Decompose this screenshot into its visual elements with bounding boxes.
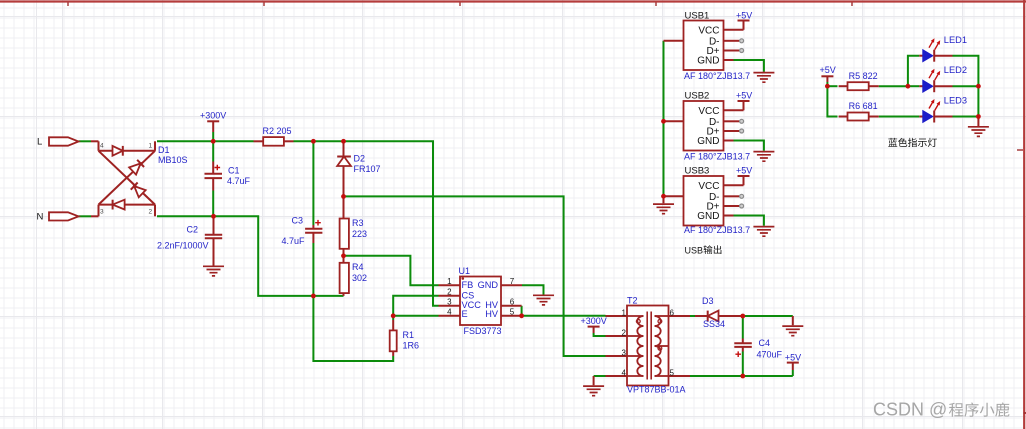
svg-text:D3: D3 — [702, 296, 714, 306]
svg-text:VCC: VCC — [698, 25, 719, 36]
svg-text:R1: R1 — [403, 330, 415, 340]
svg-text:+5V: +5V — [736, 91, 752, 101]
svg-text:+5V: +5V — [736, 10, 752, 20]
svg-text:USB2: USB2 — [685, 91, 710, 102]
svg-text:CSDN @: CSDN @ — [873, 400, 947, 420]
svg-text:C1: C1 — [228, 166, 240, 176]
svg-text:470uF: 470uF — [757, 349, 783, 359]
svg-text:VPT87BB-01A: VPT87BB-01A — [627, 385, 686, 395]
svg-text:1: 1 — [149, 143, 153, 150]
svg-text:LED3: LED3 — [944, 96, 967, 106]
svg-text:AF 180°ZJB13.7: AF 180°ZJB13.7 — [684, 225, 750, 235]
svg-text:L: L — [37, 137, 42, 148]
svg-text:USB1: USB1 — [685, 10, 710, 21]
svg-text:D1: D1 — [158, 145, 170, 155]
svg-text:R5 822: R5 822 — [849, 71, 878, 81]
svg-text:VCC: VCC — [698, 181, 719, 192]
svg-text:3: 3 — [622, 349, 627, 358]
svg-text:+5V: +5V — [736, 166, 752, 176]
svg-text:R2 205: R2 205 — [263, 126, 292, 136]
svg-text:FB: FB — [462, 280, 474, 290]
svg-text:+300V: +300V — [200, 111, 226, 121]
svg-text:E: E — [462, 309, 468, 319]
svg-text:2.2nF/1000V: 2.2nF/1000V — [157, 240, 209, 250]
svg-text:C3: C3 — [292, 215, 304, 225]
svg-text:C4: C4 — [759, 338, 771, 348]
svg-text:R6 681: R6 681 — [849, 101, 878, 111]
svg-text:LED1: LED1 — [944, 35, 967, 45]
svg-text:3: 3 — [100, 209, 104, 216]
svg-text:R3: R3 — [352, 218, 364, 228]
svg-text:7: 7 — [510, 277, 515, 286]
svg-text:6: 6 — [510, 297, 515, 306]
svg-text:LED2: LED2 — [944, 65, 967, 75]
svg-text:302: 302 — [352, 273, 367, 283]
svg-text:D2: D2 — [354, 153, 366, 163]
svg-text:5: 5 — [510, 307, 515, 316]
svg-text:T2: T2 — [627, 296, 638, 306]
svg-text:3: 3 — [447, 297, 452, 306]
svg-text:GND: GND — [697, 136, 719, 147]
svg-text:GND: GND — [697, 211, 719, 222]
svg-text:223: 223 — [352, 229, 367, 239]
svg-text:4: 4 — [622, 369, 627, 378]
svg-text:R4: R4 — [352, 262, 364, 272]
svg-text:4: 4 — [447, 307, 452, 316]
svg-text:AF 180°ZJB13.7: AF 180°ZJB13.7 — [684, 152, 750, 162]
svg-text:4.7uF: 4.7uF — [282, 236, 306, 246]
svg-text:GND: GND — [478, 280, 499, 290]
svg-text:GND: GND — [697, 56, 719, 67]
svg-text:AF 180°ZJB13.7: AF 180°ZJB13.7 — [684, 71, 750, 81]
svg-text:SS34: SS34 — [703, 319, 725, 329]
svg-text:MB10S: MB10S — [158, 155, 188, 165]
svg-text:2: 2 — [622, 329, 627, 338]
svg-text:USB: USB — [685, 245, 704, 255]
svg-text:1R6: 1R6 — [403, 341, 420, 351]
svg-text:+300V: +300V — [581, 316, 607, 326]
svg-text:4: 4 — [100, 143, 104, 150]
svg-text:HV: HV — [485, 309, 499, 319]
svg-text:U1: U1 — [459, 266, 471, 276]
svg-text:VCC: VCC — [698, 106, 719, 117]
svg-text:C2: C2 — [187, 224, 199, 234]
svg-text:FR107: FR107 — [354, 164, 381, 174]
svg-text:FSD3773: FSD3773 — [464, 326, 502, 336]
svg-text:+5V: +5V — [820, 65, 836, 75]
svg-text:1: 1 — [622, 309, 627, 318]
svg-text:4.7uF: 4.7uF — [227, 176, 251, 186]
svg-text:USB3: USB3 — [685, 166, 710, 177]
svg-text:6: 6 — [670, 309, 675, 318]
svg-text:2: 2 — [149, 209, 153, 216]
svg-text:N: N — [37, 212, 44, 223]
svg-text:1: 1 — [447, 277, 452, 286]
svg-text:2: 2 — [447, 287, 452, 296]
svg-text:+5V: +5V — [785, 353, 801, 363]
svg-text:5: 5 — [670, 369, 675, 378]
svg-text:CS: CS — [462, 290, 475, 300]
